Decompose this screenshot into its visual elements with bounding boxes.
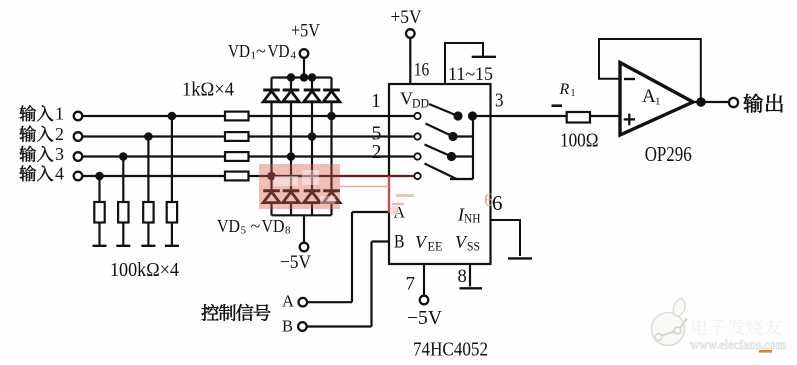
svg-text:~: ~ [251,216,261,236]
svg-text:16: 16 [414,60,430,81]
svg-text:1: 1 [55,104,64,124]
svg-text:74HC4052: 74HC4052 [413,340,488,361]
svg-text:www.elecfans.com: www.elecfans.com [690,337,787,352]
svg-text:VD: VD [228,41,250,61]
svg-text:1: 1 [571,88,576,99]
svg-text:1: 1 [655,96,661,108]
svg-text:1kΩ×4: 1kΩ×4 [182,80,234,101]
svg-text:+5V: +5V [291,20,320,41]
svg-text:2: 2 [55,124,64,144]
svg-text:7: 7 [406,274,416,295]
svg-text:8: 8 [458,267,467,287]
svg-text:100Ω: 100Ω [560,130,599,152]
svg-text:4: 4 [55,164,64,184]
svg-text:R: R [559,81,570,98]
svg-text:SS: SS [467,240,480,254]
svg-text:4: 4 [291,50,297,62]
svg-text:DD: DD [412,97,429,111]
svg-text:2: 2 [372,141,382,163]
svg-text:5: 5 [241,225,247,237]
svg-text:6: 6 [484,190,494,211]
svg-text:B: B [394,232,405,252]
svg-text:VD: VD [217,216,240,236]
svg-text:−5V: −5V [280,252,311,273]
svg-text:B: B [282,317,293,336]
svg-text:OP296: OP296 [645,142,692,166]
svg-text:A: A [642,86,656,107]
svg-text:EE: EE [428,240,443,254]
svg-text:+5V: +5V [391,7,422,28]
svg-text:−5V: −5V [407,308,442,329]
svg-text:6: 6 [492,191,503,215]
svg-text:1: 1 [371,90,381,112]
svg-text:100kΩ×4: 100kΩ×4 [110,260,179,281]
svg-text:VD: VD [268,41,290,61]
svg-text:A: A [282,292,294,311]
svg-text:3: 3 [495,90,504,112]
svg-text:VD: VD [262,216,285,236]
svg-text:~: ~ [256,41,266,61]
svg-text:NH: NH [464,212,481,226]
svg-text:8: 8 [285,225,291,237]
svg-text:3: 3 [55,144,64,164]
svg-text:11~15: 11~15 [448,64,493,85]
